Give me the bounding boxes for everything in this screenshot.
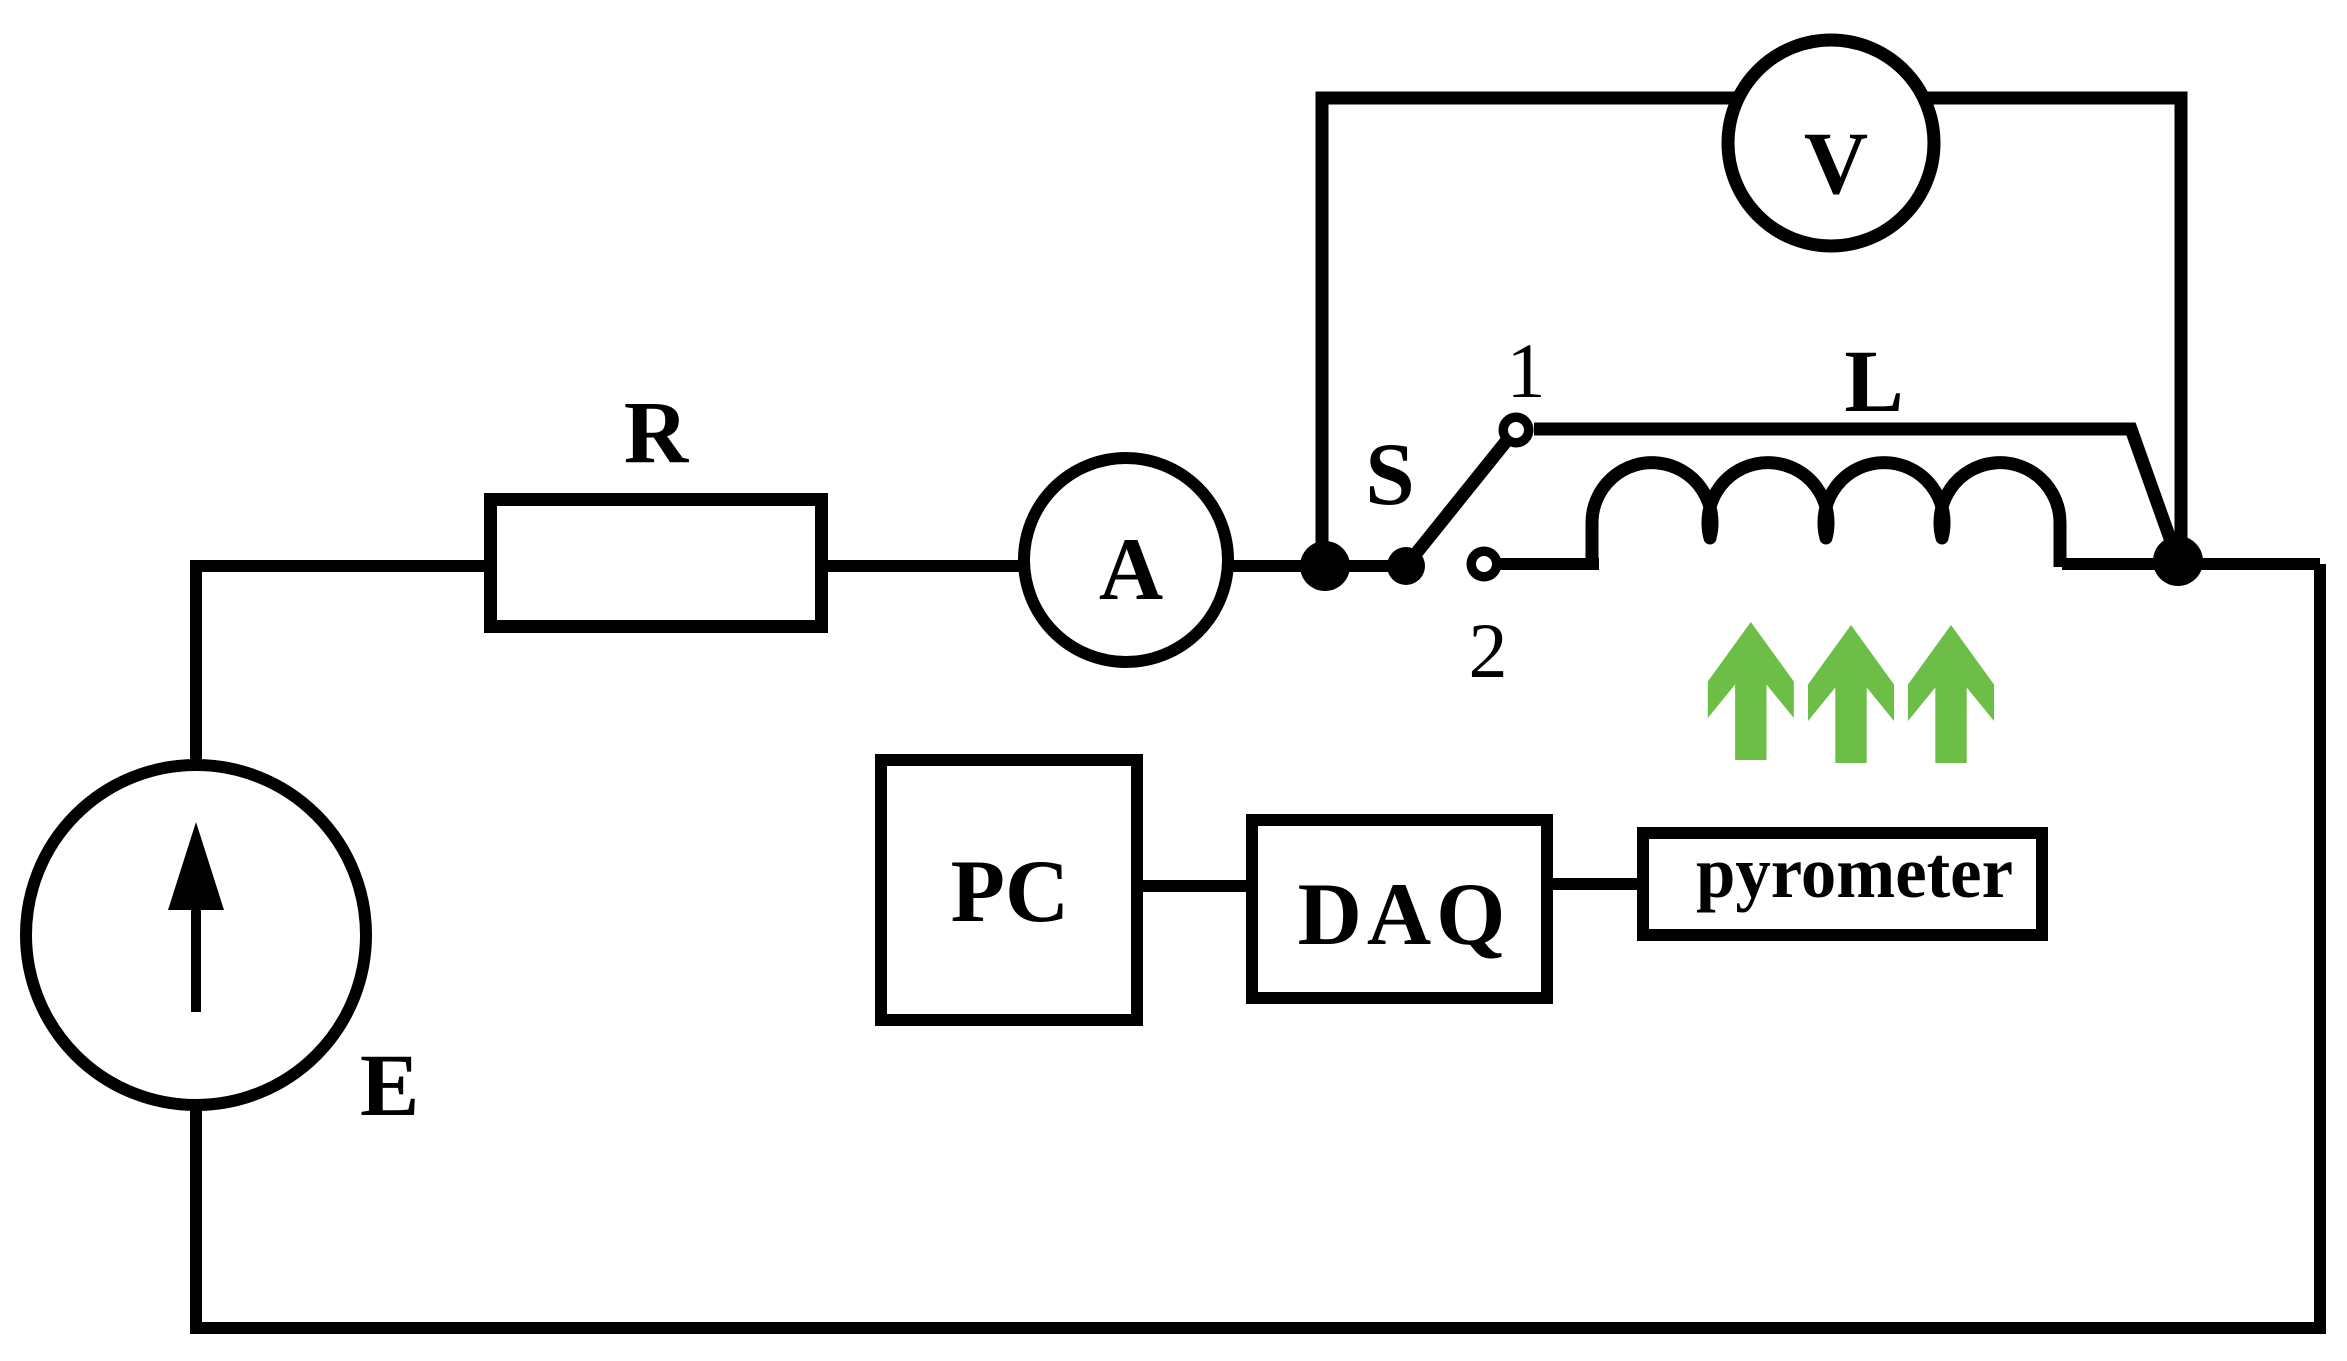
svg-text:E: E	[360, 1037, 419, 1135]
svg-text:R: R	[624, 384, 690, 482]
svg-text:2: 2	[1469, 607, 1508, 694]
svg-text:1: 1	[1507, 327, 1546, 414]
DAQ box	[1252, 820, 1547, 998]
svg-text:S: S	[1365, 426, 1415, 524]
wire DAQ to pyrometer	[1553, 878, 1637, 890]
svg-text:A: A	[1099, 521, 1163, 619]
resistor R box	[491, 500, 822, 627]
heating arrow 1	[1708, 622, 1794, 760]
source arrow	[191, 880, 201, 1012]
heating arrow 2	[1808, 625, 1894, 763]
wire main loop: left vertical, bottom, right vertical	[196, 564, 2320, 1328]
voltmeter V	[1728, 40, 1934, 246]
svg-text:L: L	[1844, 333, 1903, 431]
svg-text:DAQ: DAQ	[1298, 866, 1511, 964]
node junction left	[1300, 541, 1350, 591]
svg-text:pyrometer: pyrometer	[1696, 832, 2013, 913]
switch S lever	[1406, 434, 1512, 566]
wire switch contact 2 to inductor	[1498, 558, 1599, 570]
wire PC to DAQ	[1143, 880, 1246, 892]
svg-text:V: V	[1804, 115, 1868, 213]
wire V-loop: left vertical, top horizontal, right vertical	[1322, 98, 2181, 566]
switch pivot dot	[1387, 547, 1425, 585]
node junction right	[2153, 536, 2203, 586]
wire inductor end to right corner	[2062, 558, 2320, 570]
inductor L coil	[1592, 463, 2060, 567]
switch contact 1	[1503, 417, 1529, 443]
heating arrow 3	[1908, 625, 1994, 763]
wire L top line with diagonal to right junction	[1534, 429, 2178, 561]
current source E	[26, 765, 366, 1105]
ammeter A	[1024, 458, 1228, 662]
pyrometer box	[1643, 833, 2042, 935]
switch contact 2	[1471, 551, 1497, 577]
svg-text:PC: PC	[951, 843, 1070, 941]
PC box	[881, 760, 1137, 1020]
